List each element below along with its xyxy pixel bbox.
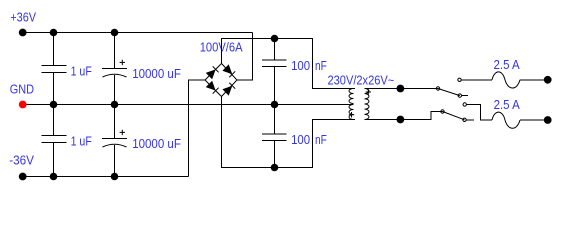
terminal primary top	[397, 85, 405, 93]
wire AC2 (bridge bottom to cap/transformer)	[222, 97, 356, 168]
svg-text:10000 uF: 10000 uF	[132, 66, 181, 81]
terminal primary bottom	[397, 116, 405, 124]
plus mark C4	[120, 130, 125, 135]
node rail1-c1	[50, 29, 58, 37]
wire -36V rail	[23, 176, 189, 178]
wire primary top to switch	[365, 88, 439, 90]
terminal GND (red)	[19, 101, 27, 109]
transformer secondary winding B	[349, 105, 354, 120]
switch S1 pole 2 lever	[443, 112, 465, 120]
wire switch to fuse F1	[461, 79, 492, 81]
node rail3-c4	[111, 173, 119, 181]
wire S1 pole1 lower stub	[462, 95, 469, 97]
diode D1 (L to T)	[206, 66, 219, 79]
terminal -36V	[19, 173, 27, 181]
wire AC1 (bridge top to cap/transformer)	[222, 39, 356, 89]
fuse F2	[492, 112, 520, 128]
switch S1 pole 1 lever	[438, 89, 460, 96]
fuse F1	[492, 72, 520, 88]
capacitor C2 plates (electrolytic)	[102, 68, 127, 70]
capacitor C6 100nF bottom: wires	[274, 105, 276, 134]
switch S1 pole 2 contacts	[441, 110, 444, 113]
capacitor C1 1uF top: wires	[53, 33, 55, 66]
capacitor C3 plates	[42, 135, 67, 137]
wire +36V rail	[23, 32, 253, 34]
node gnd-c2	[111, 101, 119, 109]
svg-text:+36V: +36V	[10, 10, 36, 25]
svg-text:GND: GND	[10, 81, 34, 96]
terminal F1	[544, 76, 552, 84]
capacitor C4 10000uF bottom: wires	[114, 105, 116, 139]
capacitor C5 plates	[262, 59, 287, 61]
capacitor C3 1uF bottom: wires	[53, 105, 55, 136]
terminal +36V	[19, 29, 27, 37]
capacitor C1 plates	[42, 65, 67, 67]
switch S1 pole 1 contacts	[436, 87, 439, 90]
svg-text:10000 uF: 10000 uF	[132, 136, 181, 151]
wire S1 pole2 lower stub	[466, 119, 474, 121]
svg-text:nF: nF	[315, 132, 327, 147]
plus mark C2	[120, 60, 125, 65]
svg-text:2.5 A: 2.5 A	[494, 57, 520, 72]
terminal F2	[544, 116, 552, 124]
wire F2 to terminal	[520, 119, 548, 121]
plus mark secondary	[349, 112, 354, 117]
capacitor C5 100nF top: wires	[274, 39, 276, 60]
wire DC- (bridge left to -36V rail)	[189, 80, 206, 177]
diode D4 (B to R)	[222, 83, 235, 96]
capacitor C6 plates	[262, 133, 287, 135]
bridge diamond edges	[205, 64, 237, 97]
svg-text:230V/2x26V~: 230V/2x26V~	[328, 72, 395, 87]
node gnd-c1	[50, 101, 58, 109]
svg-text:2.5 A: 2.5 A	[494, 97, 520, 112]
wire DC+ (bridge right to +36V rail)	[237, 33, 253, 81]
wire primary bottom to switch	[365, 112, 443, 120]
wire switch to fuse F2	[466, 105, 492, 121]
diode D3 (L to B)	[206, 81, 219, 94]
svg-text:100: 100	[291, 58, 310, 73]
wire GND rail	[23, 104, 353, 106]
plus mark primary	[366, 89, 371, 94]
capacitor C2 10000uF top: wires	[114, 33, 116, 69]
node AC2-C6	[271, 164, 279, 172]
wire F1 to terminal	[520, 79, 548, 81]
transformer primary winding	[365, 89, 370, 120]
node rail1-c2	[111, 29, 119, 37]
node AC1-C5	[271, 35, 279, 43]
svg-text:100: 100	[291, 132, 310, 147]
node rail3-c3	[50, 173, 58, 181]
svg-text:-36V: -36V	[9, 153, 34, 168]
transformer secondary winding A	[349, 89, 354, 104]
svg-text:1 uF: 1 uF	[71, 134, 92, 149]
svg-text:nF: nF	[315, 58, 327, 73]
capacitor C4 plates (electrolytic)	[102, 138, 127, 140]
svg-text:1 uF: 1 uF	[71, 64, 92, 79]
node GND-C5-C6	[271, 101, 279, 109]
diode D2 (T to R)	[222, 64, 235, 77]
